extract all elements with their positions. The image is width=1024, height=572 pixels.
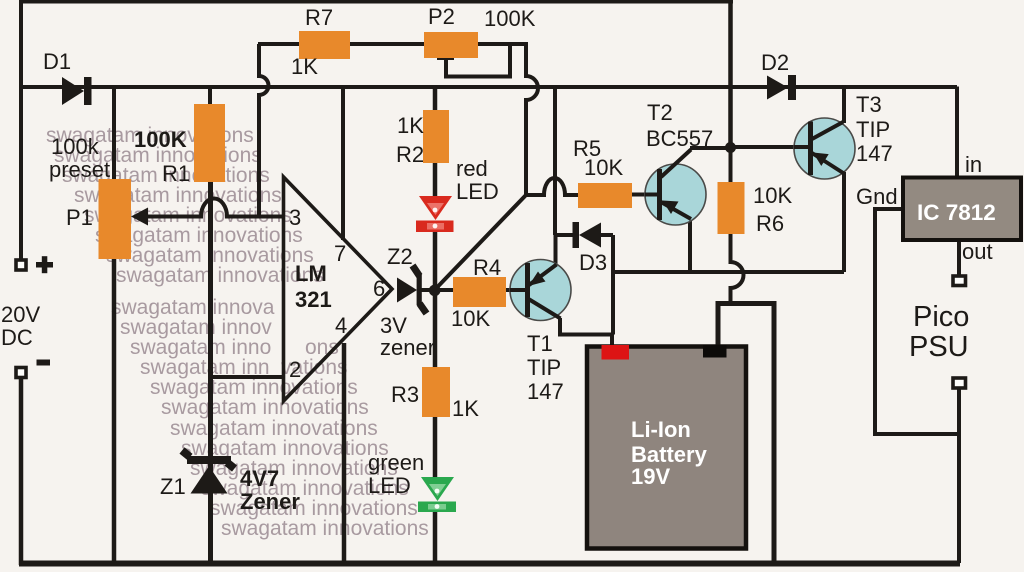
wire T2 emitter to junction dot	[690, 146, 728, 150]
terminal IC out	[953, 276, 966, 286]
svg-text:D3: D3	[579, 250, 607, 275]
svg-text:P1: P1	[66, 205, 93, 230]
svg-text:swagatam innovations: swagatam innovations	[161, 396, 369, 419]
svg-text:D1: D1	[43, 49, 71, 74]
svg-text:R4: R4	[473, 255, 501, 280]
svg-text:LED: LED	[368, 473, 411, 498]
svg-text:PSU: PSU	[909, 331, 969, 363]
wire R1 top lead	[208, 87, 212, 106]
svg-text:zener: zener	[380, 335, 435, 360]
wire D3 cathode lead	[555, 233, 574, 237]
svg-text:Z2: Z2	[387, 244, 413, 269]
svg-text:P2: P2	[428, 4, 455, 29]
wire Z2 to node	[421, 288, 434, 292]
svg-text:R2: R2	[396, 142, 424, 167]
svg-text:swagatam innovations: swagatam innovations	[221, 517, 429, 540]
svg-text:Gnd: Gnd	[856, 184, 898, 209]
wire output node to R3	[433, 290, 438, 368]
svg-text:swagatam innovations: swagatam innovations	[116, 264, 324, 287]
svg-text:100K: 100K	[134, 127, 187, 152]
zener Z1 4V7	[160, 451, 300, 515]
label Pico PSU	[909, 301, 969, 363]
wire R4 to T1 base	[506, 288, 512, 292]
svg-text:R6: R6	[756, 211, 784, 236]
wire R1 bottom lead through Z1 to bottom rail	[208, 182, 213, 563]
transistor T3 TIP147	[794, 92, 893, 179]
svg-text:T3: T3	[856, 92, 882, 117]
svg-text:BC557: BC557	[646, 126, 713, 151]
svg-text:4V7: 4V7	[240, 466, 279, 491]
svg-text:R7: R7	[305, 5, 333, 30]
wire T3 emitter to main rail	[842, 87, 846, 124]
diode D2	[761, 50, 796, 100]
wire P1 wiper arrowhead	[131, 208, 148, 226]
wire P2 wiper loop to right terminal	[437, 46, 510, 77]
svg-text:LM: LM	[295, 261, 327, 286]
op-amp U1 LM321	[284, 177, 393, 401]
wire battery plus stub	[610, 335, 614, 348]
resistor R4	[451, 255, 506, 331]
svg-text:T2: T2	[647, 100, 673, 125]
wire T3 collector down to charge line	[842, 172, 846, 272]
svg-text:10K: 10K	[584, 155, 623, 180]
wire op-amp pin 4 to bottom rail	[342, 343, 347, 563]
svg-text:100k: 100k	[51, 134, 100, 159]
svg-text:preset: preset	[49, 157, 110, 182]
resistor R1	[134, 104, 225, 186]
svg-text:TIP: TIP	[856, 117, 890, 142]
svg-text:6: 6	[373, 276, 385, 301]
svg-text:10K: 10K	[753, 183, 792, 208]
wire T2 collector down to charge line	[688, 218, 692, 272]
wire top rail	[19, 0, 733, 4]
wire left vertical from top rail to + terminal	[19, 2, 23, 259]
preset P2	[424, 4, 536, 58]
wire R6 top lead	[729, 148, 733, 182]
terminal + input	[16, 256, 53, 273]
svg-text:TIP: TIP	[527, 355, 561, 380]
wire PSU terminal stub	[957, 389, 961, 434]
wire green LED to bottom rail	[433, 511, 438, 563]
wire T1 emitter line from main rail to D3 junction	[553, 87, 557, 236]
wire node to R4	[435, 288, 453, 292]
svg-text:19V: 19V	[631, 464, 670, 489]
resistor R2	[396, 110, 449, 167]
transistor T1 TIP147	[510, 260, 571, 405]
svg-text:DC: DC	[1, 325, 33, 350]
svg-text:1K: 1K	[291, 54, 318, 79]
svg-text:7: 7	[334, 241, 346, 266]
wire IC 7812 Gnd down and right to PSU return	[875, 209, 959, 563]
diode D3	[573, 222, 608, 275]
resistor R5	[573, 136, 632, 208]
wire R6 bottom lead with hop over charge line	[731, 234, 744, 304]
svg-text:Li-Ion: Li-Ion	[631, 417, 691, 442]
wire P2 right terminal down with hop over main rail	[478, 44, 538, 196]
svg-text:20V: 20V	[1, 302, 40, 327]
svg-text:green: green	[368, 450, 424, 475]
wire R7 left lead down to pin3 line with hop over main rail	[258, 44, 299, 217]
wire R2 top lead	[433, 87, 438, 112]
svg-text:out: out	[962, 239, 993, 264]
wire P1 wiper to op-amp pin 3 with hop over R1 lead	[134, 199, 284, 217]
svg-text:10K: 10K	[451, 306, 490, 331]
zener Z2	[380, 244, 435, 360]
green LED	[368, 450, 456, 512]
svg-text:321: 321	[295, 287, 332, 312]
svg-text:4: 4	[335, 313, 347, 338]
svg-text:1K: 1K	[397, 113, 424, 138]
wire right vertical from top rail down to T2/T3 junction	[728, 2, 733, 150]
svg-text:Pico: Pico	[913, 301, 969, 333]
svg-text:IC 7812: IC 7812	[917, 200, 996, 225]
svg-text:D2: D2	[761, 50, 789, 75]
wire bottom ground rail	[19, 561, 960, 567]
wire D3 junction to T1 emitter	[554, 235, 558, 266]
wire feedback diagonal from P2 line to output node	[435, 195, 526, 290]
resistor R6	[718, 182, 793, 236]
svg-text:red: red	[456, 156, 488, 181]
wire T1 collector down and right to battery plus	[560, 318, 613, 335]
terminal - input	[16, 360, 50, 378]
wire P1 top lead	[112, 87, 116, 181]
wire IC 7812 out stub	[957, 240, 961, 275]
wire R7 to P2	[350, 42, 424, 46]
terminal PSU input	[953, 378, 966, 388]
wire R5 to T2 base	[632, 193, 646, 197]
wire op-amp pin 2 to R1/Z1 line	[211, 375, 284, 379]
svg-text:R3: R3	[391, 382, 419, 407]
wire op-amp pin 7 to main rail	[341, 87, 345, 241]
wire D3 anode vertical down to T1 collector wire	[611, 235, 615, 335]
wire R3 to green LED	[433, 416, 438, 478]
IC 7812 regulator	[856, 152, 1021, 264]
wire charge line from D3 vertical to T3 collector	[613, 270, 844, 274]
wire battery minus tee	[718, 304, 774, 564]
red LED	[416, 156, 499, 232]
svg-text:LED: LED	[456, 179, 499, 204]
diode D1	[43, 49, 92, 105]
node output junction dot	[429, 285, 441, 297]
wire P1 bottom lead	[112, 258, 117, 563]
resistor R3	[391, 367, 479, 421]
transistor T2 BC557	[645, 100, 713, 225]
svg-text:Z1: Z1	[160, 474, 186, 499]
wire from P2 corner to R5 with hop over T1 emitter line	[526, 178, 578, 195]
svg-text:T1: T1	[527, 331, 553, 356]
wire main horizontal supply rail	[19, 85, 957, 89]
wire D3 anode lead	[600, 233, 613, 237]
svg-text:R1: R1	[162, 161, 190, 186]
svg-text:2: 2	[289, 357, 301, 382]
svg-text:in: in	[965, 152, 982, 177]
label 20V DC	[1, 302, 40, 350]
wire R2 to red LED	[433, 163, 438, 197]
svg-text:147: 147	[527, 379, 564, 404]
battery Li-Ion 19V	[587, 345, 746, 549]
svg-text:100K: 100K	[484, 6, 536, 31]
wire T3 base from junction dot	[732, 145, 795, 149]
svg-text:3: 3	[289, 205, 301, 230]
junction dot T2/T3/R6	[725, 142, 736, 153]
svg-text:Zener: Zener	[240, 489, 300, 514]
wire left vertical from - terminal to bottom rail	[19, 379, 24, 565]
preset P1	[49, 134, 131, 259]
resistor R7	[291, 5, 350, 79]
svg-text:1K: 1K	[452, 396, 479, 421]
wire main rail down to IC 7812 in	[955, 87, 959, 180]
svg-text:147: 147	[856, 141, 893, 166]
wire red LED to output node	[433, 231, 438, 290]
